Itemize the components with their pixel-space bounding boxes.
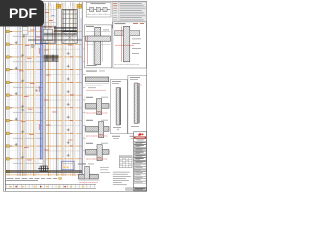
svg-text:PDF: PDF (9, 5, 37, 21)
